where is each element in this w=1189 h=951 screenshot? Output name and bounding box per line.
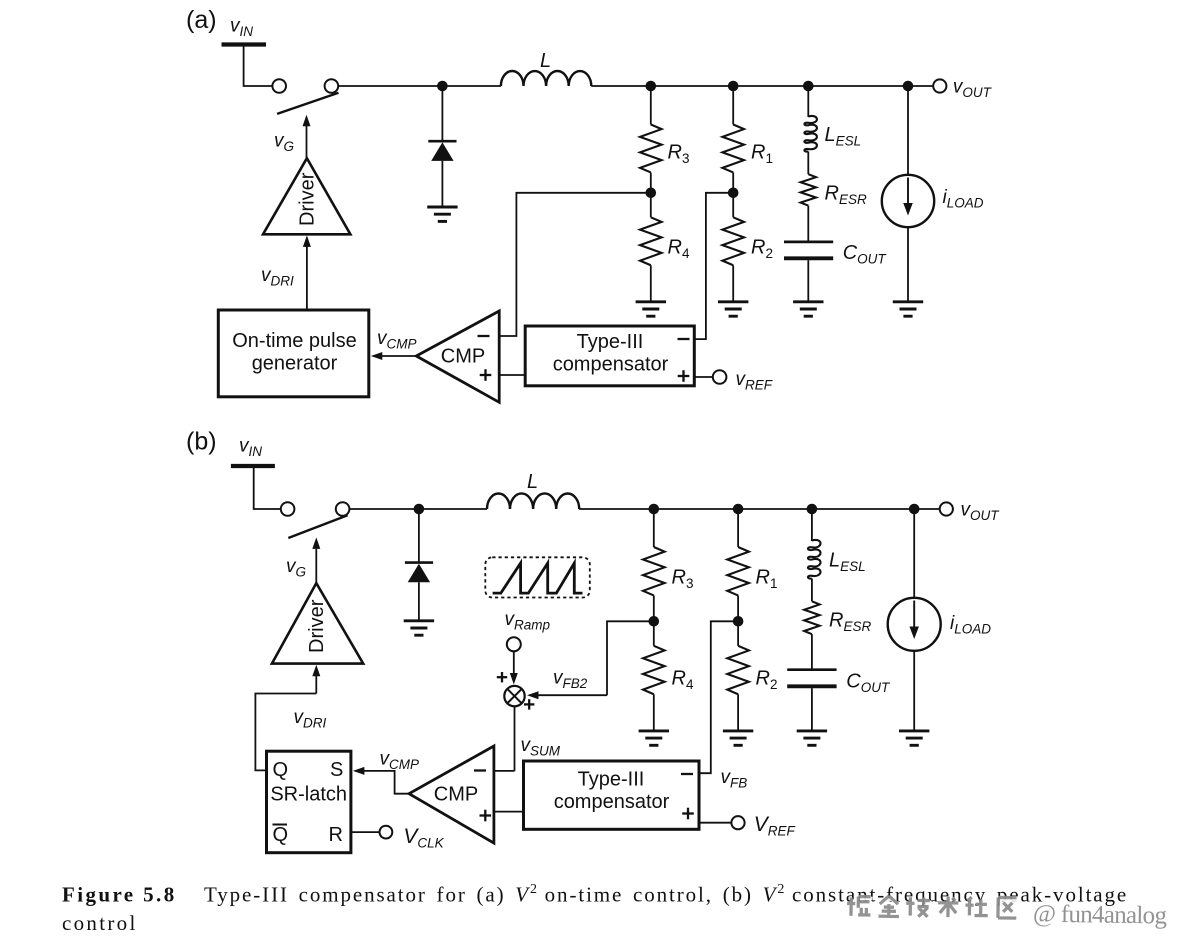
battery VIN (b) (231, 464, 275, 468)
compensator plus label (a) (678, 370, 690, 382)
wire LESL to RESR (b) (811, 579, 813, 602)
label vIN (a) (230, 16, 253, 40)
svg-text:L: L (527, 471, 538, 493)
node Cout rail (a) (803, 81, 814, 92)
wire CMP plus input (b) (494, 811, 524, 813)
diode D2 (b) (405, 563, 433, 620)
svg-text:generator: generator (252, 352, 338, 374)
label vFB2 (b) (553, 668, 588, 692)
label vOUT (b) (961, 500, 1001, 524)
diode D1 (a) (428, 141, 456, 206)
label vCMP (a) (377, 328, 417, 352)
terminal vOUT (a) (933, 79, 946, 92)
resistor RESR (b) (804, 601, 819, 634)
ground diode (b) (404, 621, 434, 635)
terminal VCLK (b) (380, 826, 393, 839)
label L (b) (527, 471, 538, 493)
figure caption (62, 882, 1128, 935)
ground COUT (a) (793, 302, 823, 316)
label vG (a) (274, 131, 294, 155)
wire inductor to vOUT (b) (579, 508, 940, 510)
wire COUT to ground (b) (811, 688, 813, 731)
gate drive arrow vG (b) (312, 537, 320, 583)
label vIN (b) (239, 436, 262, 460)
label vREF (a) (736, 369, 773, 393)
svg-text:R: R (329, 824, 343, 846)
wire switch to inductor (a) (338, 85, 501, 87)
wire CMP minus input from R3R4 node (a) (499, 193, 651, 336)
wire rail to iLOAD (a) (907, 86, 909, 176)
compensator minus label (b) (681, 773, 693, 775)
on-time pulse generator box (a) (218, 310, 368, 397)
comparator minus (b) (474, 769, 486, 771)
capacitor COUT (b) (787, 670, 836, 687)
node R3R4 (a) (646, 188, 657, 199)
svg-text:(a): (a) (186, 6, 217, 34)
node R1R2 (b) (733, 616, 744, 627)
node R1 rail (b) (733, 504, 744, 515)
svg-text:Driver: Driver (297, 172, 319, 226)
ground R4 (a) (636, 302, 666, 316)
label LESL (a) (825, 124, 862, 149)
svg-text:On-time pulse: On-time pulse (232, 330, 357, 352)
wire compensator plus to vREF (a) (694, 376, 713, 378)
ground iLOAD (b) (899, 731, 929, 745)
arrow vFB2 into summer (b) (527, 691, 607, 699)
wire rail to R3 (a) (650, 86, 652, 125)
label VREF (b) (754, 813, 796, 839)
svg-text:Q: Q (273, 824, 289, 846)
terminal vOUT (b) (940, 502, 953, 515)
wire rail to LESL (b) (811, 509, 813, 541)
label iLOAD (b) (950, 613, 991, 637)
svg-text:SR-latch: SR-latch (270, 783, 347, 805)
wire iLOAD to ground (a) (907, 227, 909, 302)
wire CMP out to S input (b) (353, 767, 409, 794)
capacitor COUT (a) (784, 242, 833, 258)
label R3 (b) (672, 567, 694, 592)
battery VIN (a) (222, 42, 267, 46)
wire inductor to vOUT (a) (591, 85, 933, 87)
resistor R4 (b) (643, 646, 665, 694)
wire battery to switch (a) (244, 47, 273, 87)
svg-text:compensator: compensator (554, 791, 670, 813)
switch throw contact (a) (325, 79, 339, 93)
inductor L (b) (487, 493, 579, 509)
label vCMP (b) (380, 749, 420, 773)
label R4 (a) (668, 237, 690, 262)
wire rail to iLOAD (b) (913, 509, 915, 599)
wire compensator plus to VREF (b) (699, 822, 731, 824)
switch pole contact (a) (272, 79, 286, 93)
label vDRI (b) (294, 707, 327, 731)
driver U1 (a) (263, 158, 350, 234)
summer plus vFB2 (b) (524, 699, 534, 709)
label vOUT (a) (953, 77, 993, 101)
summing node (b) (504, 686, 524, 706)
label vDRI (a) (261, 265, 294, 289)
svg-text:(b): (b) (186, 428, 217, 456)
wire R input to VCLK (b) (351, 831, 380, 833)
comparator minus (a) (478, 335, 490, 337)
svg-text:L: L (540, 50, 551, 72)
compensator plus label (b) (682, 808, 694, 820)
label RESR (a) (825, 183, 867, 208)
switch blade (b) (288, 515, 347, 538)
resistor R2 (b) (727, 646, 749, 694)
inductor L (a) (501, 71, 591, 86)
type-III compensator box (b) (524, 761, 700, 829)
comparator plus (a) (480, 369, 492, 381)
label VCLK (b) (403, 825, 444, 851)
inductor LESL (b) (808, 540, 821, 579)
label R4 (b) (672, 668, 694, 693)
wire rail to R3 (b) (653, 509, 655, 547)
node switch-diode (a) (437, 81, 448, 92)
node R3 rail (a) (646, 81, 657, 92)
arrow vRamp to summer (b) (510, 651, 518, 684)
svg-text:Driver: Driver (306, 599, 328, 653)
label iLOAD (a) (943, 187, 984, 211)
wire switch to inductor (b) (349, 508, 487, 510)
wire rail to R1 (a) (732, 86, 734, 125)
watermark juejin community (847, 895, 1170, 931)
svg-text:control: control (62, 911, 138, 935)
switch pole contact (b) (281, 502, 295, 516)
node R3 rail (b) (649, 504, 660, 515)
resistor R3 (b) (643, 547, 665, 595)
node R3R4 (b) (649, 616, 660, 627)
resistor R4 (a) (640, 217, 662, 265)
wire rail to R1 (b) (737, 509, 739, 547)
svg-text:S: S (330, 759, 343, 781)
svg-text:@ fun4analog: @ fun4analog (1033, 901, 1168, 930)
label R2 (a) (751, 237, 773, 262)
node R1R2 (a) (728, 188, 739, 199)
ground COUT (b) (797, 731, 827, 745)
svg-text:CMP: CMP (441, 346, 485, 368)
svg-text:compensator: compensator (553, 354, 669, 376)
switch throw contact (b) (336, 502, 350, 516)
comparator CMP (b) (409, 746, 494, 843)
wire rail to LESL (a) (807, 86, 809, 117)
label vSUM (b) (521, 735, 561, 759)
label R2 (b) (756, 668, 778, 693)
comparator text (b) (434, 784, 478, 806)
wire R2 to ground (a) (732, 265, 734, 302)
wire RESR to COUT (a) (807, 206, 809, 241)
svg-text:Q: Q (273, 759, 289, 781)
comparator plus (b) (480, 810, 492, 822)
node Cout rail (b) (807, 504, 818, 515)
terminal VREF (b) (731, 816, 744, 829)
svg-text:Type-III compensator for (a) V: Type-III compensator for (a) V2 on-time … (204, 882, 1128, 907)
wire driver to SR latch Q (b) (255, 694, 316, 771)
driver U2 (b) (272, 583, 363, 664)
label LESL (b) (829, 550, 866, 575)
svg-text:Type-III: Type-III (577, 331, 644, 353)
resistor RESR (a) (801, 174, 816, 205)
arrow into driver (b) (312, 665, 320, 694)
switch blade (a) (277, 93, 338, 114)
label RESR (b) (829, 610, 871, 635)
label L (a) (540, 50, 551, 72)
svg-text:Figure 5.8: Figure 5.8 (62, 883, 177, 907)
current source iLOAD (a) (882, 175, 934, 227)
node iLOAD rail (a) (903, 81, 914, 92)
ground R2 (a) (718, 302, 748, 316)
wire iLOAD to ground (b) (913, 651, 915, 731)
inductor LESL (a) (804, 116, 817, 152)
label COUT (b) (846, 671, 891, 696)
node iLOAD rail (b) (909, 504, 920, 515)
svg-text:CMP: CMP (434, 784, 478, 806)
wire CMP plus input (a) (499, 374, 525, 376)
comparator CMP (a) (416, 311, 499, 402)
label vG (b) (286, 556, 306, 580)
wire summer to CMP (b) (514, 706, 516, 771)
terminal vREF (a) (713, 370, 727, 384)
compensator minus label (a) (678, 338, 690, 340)
ground R4 (b) (639, 731, 669, 745)
ramp waveform box (b) (485, 557, 590, 597)
wire LESL to RESR (a) (807, 152, 809, 175)
wire RESR to COUT (b) (811, 634, 813, 668)
wire R4 to ground (a) (650, 265, 652, 302)
wire R4 to ground (b) (653, 694, 655, 731)
wire node to diode (b) (418, 509, 420, 562)
label R1 (b) (756, 567, 778, 592)
resistor R1 (a) (722, 125, 744, 173)
type-III compensator box (a) (525, 326, 694, 386)
part label (a) (186, 6, 217, 34)
comparator text (a) (441, 346, 485, 368)
resistor R3 (a) (640, 125, 662, 173)
SR-latch box (b) (267, 751, 351, 853)
label R1 (a) (751, 142, 773, 167)
wire CMP output arrow (a) (371, 352, 417, 360)
resistor R1 (b) (727, 547, 749, 595)
wire R1 to R2 (b) (737, 596, 739, 646)
part label (b) (186, 428, 217, 456)
ground R2 (b) (723, 731, 753, 745)
wire summer to CMP minus (b) (494, 770, 515, 772)
label vFB (b) (721, 767, 748, 791)
wire R1 to R2 (a) (732, 173, 734, 218)
gate drive arrow vG (a) (303, 115, 311, 158)
node switch-diode (b) (414, 504, 425, 515)
driver text (b) (306, 599, 328, 653)
ground diode (a) (427, 207, 457, 221)
wire compensator minus to R1R2 node (a) (694, 193, 733, 339)
summer plus ramp (b) (497, 672, 507, 682)
wire battery to switch (b) (254, 468, 281, 509)
wire R2 to ground (b) (737, 694, 739, 731)
label R3 (a) (668, 142, 690, 167)
wire COUT to ground (a) (807, 260, 809, 302)
wire compensator minus to R1R2 node (b) (699, 621, 738, 773)
wire vFB2 from R3R4 node (b) (607, 621, 654, 695)
driver text (a) (297, 172, 319, 226)
svg-text:Type-III: Type-III (578, 769, 645, 791)
current source iLOAD (b) (888, 598, 941, 651)
resistor R2 (a) (722, 217, 744, 265)
terminal vRamp (b) (507, 637, 521, 651)
ground iLOAD (a) (893, 302, 923, 316)
wire node to diode (a) (441, 86, 443, 140)
arrow into driver (a) (303, 235, 311, 310)
label COUT (a) (843, 242, 888, 267)
wire R3 to R4 (b) (653, 596, 655, 646)
wire R3 to R4 (a) (650, 173, 652, 218)
node R1 rail (a) (728, 81, 739, 92)
label vRamp (b) (505, 609, 551, 633)
